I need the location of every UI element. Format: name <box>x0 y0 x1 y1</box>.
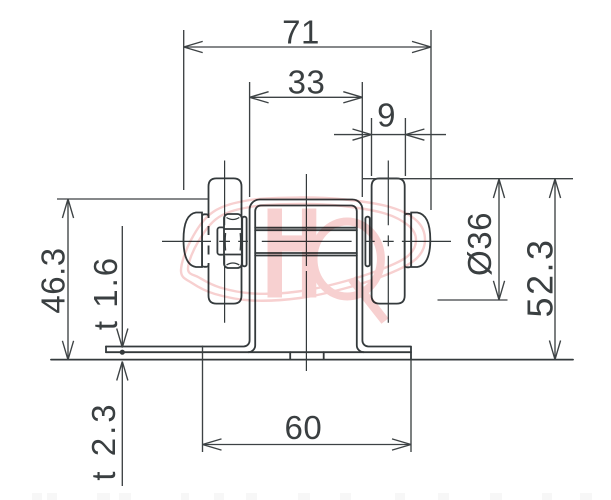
dim phi36 line <box>498 179 500 300</box>
slot tick right <box>323 352 325 359</box>
dim 46.3 line <box>67 199 69 360</box>
right washer <box>405 214 412 267</box>
base plate bottom line C <box>51 359 573 361</box>
right wheel centerline <box>387 161 389 323</box>
watermark letter Q <box>314 222 386 322</box>
right axle head <box>411 213 430 268</box>
watermark oval ring outer <box>181 197 425 300</box>
left washer <box>202 214 209 266</box>
axle threaded stub <box>217 227 224 254</box>
foot left end edge <box>105 347 107 353</box>
right wheel <box>372 178 405 303</box>
watermark letter H <box>268 209 317 298</box>
svg-text:71: 71 <box>282 14 320 51</box>
svg-text:Ø36: Ø36 <box>461 212 498 276</box>
dim 71 line <box>184 46 431 48</box>
dim 52.3 arrows <box>549 179 560 198</box>
nut on left <box>224 214 242 268</box>
dim t2.3 arrow <box>117 362 128 381</box>
left wheel centerline <box>224 161 226 323</box>
dim phi36 bottom extension <box>438 299 508 301</box>
dim phi36 arrows <box>493 179 504 198</box>
dim 46.3 arrows <box>62 199 73 218</box>
svg-text:46.3: 46.3 <box>35 247 72 313</box>
left spacer <box>242 217 246 267</box>
dim 60 extension lines <box>202 346 204 453</box>
centerlines <box>162 161 451 372</box>
axle tube outer top <box>255 227 357 229</box>
horizontal axis <box>162 240 451 242</box>
dim 52.3 line <box>554 179 556 360</box>
svg-text:9: 9 <box>377 97 396 134</box>
svg-text:33: 33 <box>288 63 326 100</box>
right spacer <box>365 217 369 267</box>
dim 60 arrows <box>203 439 222 450</box>
dim t2.3 line <box>121 362 123 487</box>
axle tube inner top <box>255 229 357 231</box>
dim 46.3 top extension <box>57 198 209 200</box>
dim 33 arrows <box>250 92 269 103</box>
dim 33 line <box>250 96 363 98</box>
svg-text:60: 60 <box>285 409 323 446</box>
dim 71 extension lines <box>183 30 185 190</box>
dot between t-dimension arrows <box>120 350 125 355</box>
dim 33 extension lines <box>249 82 251 197</box>
left axle head <box>184 213 203 268</box>
left wheel <box>209 178 242 303</box>
dim 9 arrows <box>353 129 372 140</box>
bracket outer profile <box>106 200 411 347</box>
watermark oval ring inner <box>188 204 416 294</box>
dimensions <box>57 30 573 486</box>
dim 60 line <box>203 444 412 446</box>
hidden line gaps on left wheel edge <box>207 218 210 263</box>
svg-text:52.3: 52.3 <box>520 237 561 317</box>
dim 71 arrows <box>184 41 203 52</box>
dim t1.6 line <box>121 226 123 348</box>
svg-text:t 1.6: t 1.6 <box>87 256 124 330</box>
dim 9 extension lines <box>371 118 373 176</box>
faint cut-off text row at bottom <box>32 493 592 500</box>
slot tick left <box>289 352 291 359</box>
dim 9 line <box>334 134 446 136</box>
HQ watermark <box>181 197 425 321</box>
svg-text:t 2.3: t 2.3 <box>85 401 122 480</box>
foot right end edge <box>410 347 412 360</box>
axle tube inner bottom <box>255 252 357 254</box>
dim phi36 top extension <box>363 178 573 180</box>
foot bottom line B <box>106 351 411 353</box>
axle tube outer bottom <box>255 255 357 257</box>
main vertical centerline <box>305 174 307 371</box>
bracket inner profile <box>248 206 364 353</box>
dim t1.6 arrow <box>117 329 128 348</box>
